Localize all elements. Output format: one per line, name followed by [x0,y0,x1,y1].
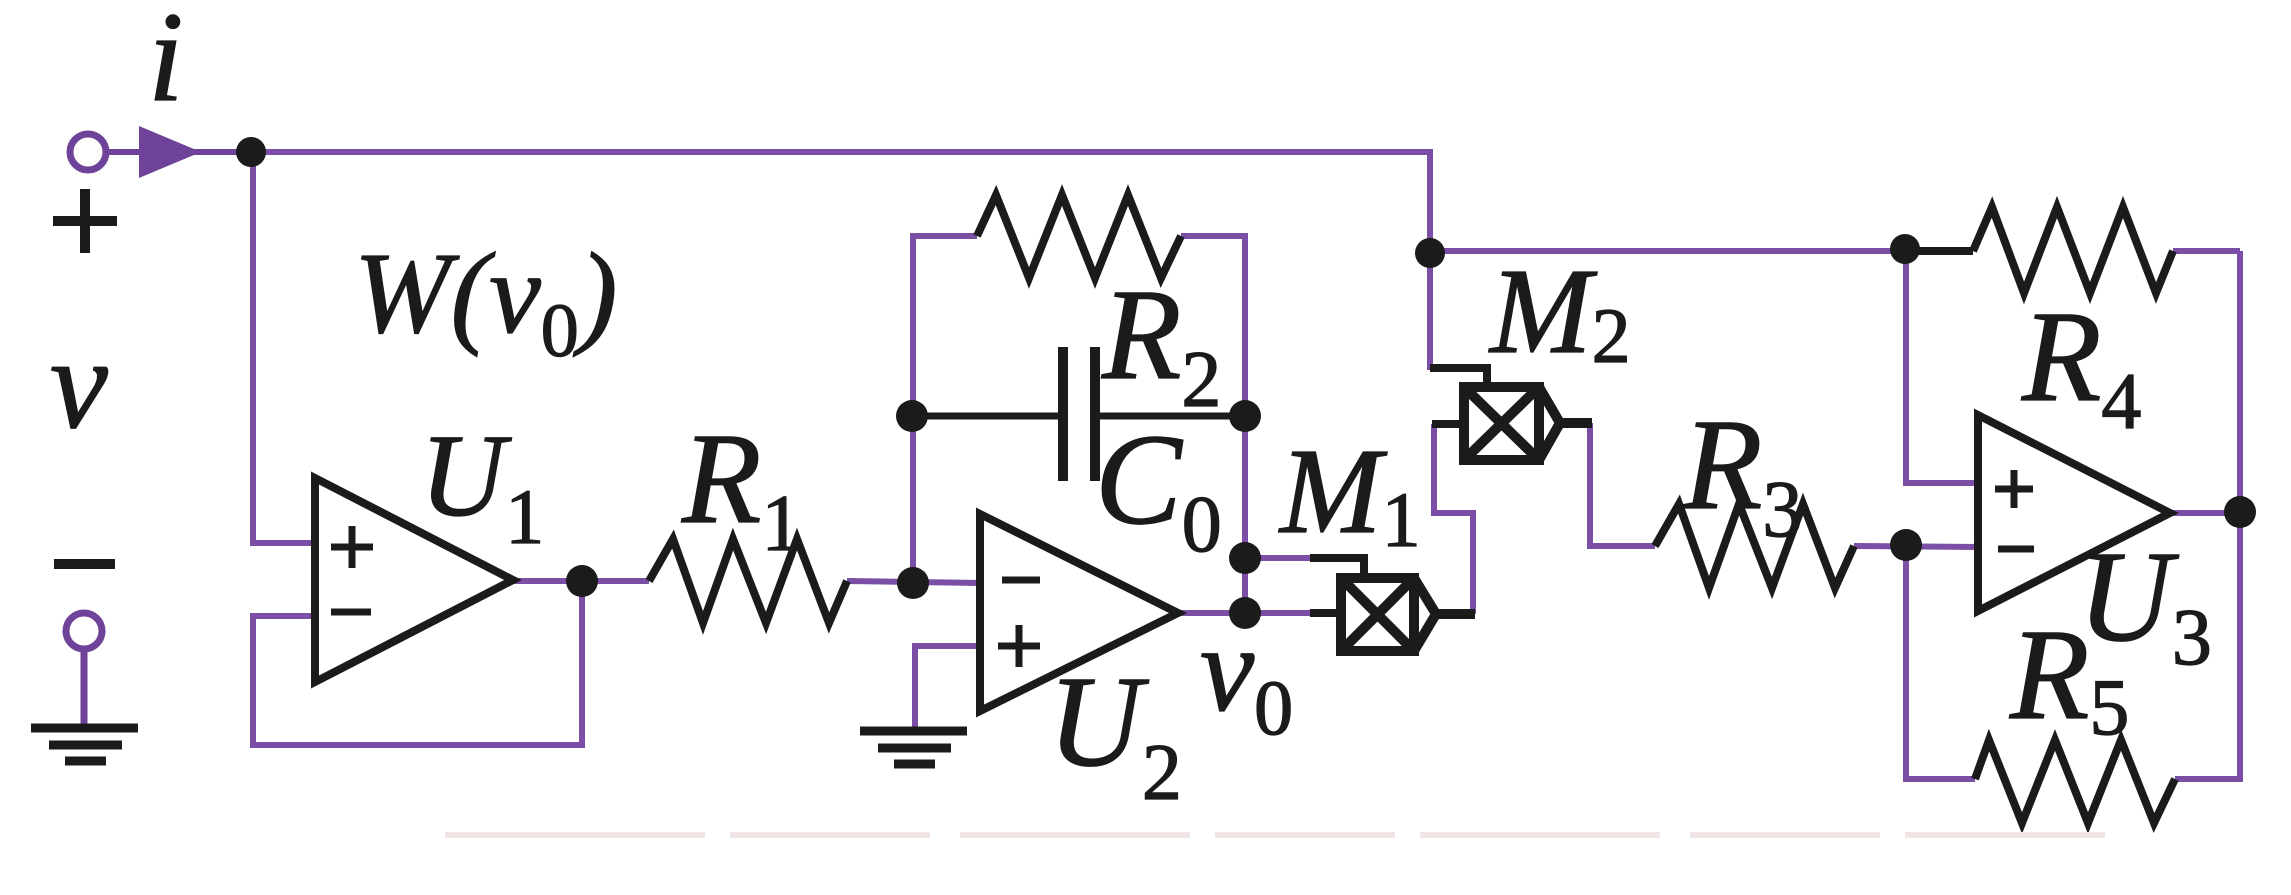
wire: black stub into M1 left input [1310,609,1341,617]
node: M2 branch dot [1415,238,1445,268]
wire: U3 plus node vertical and plus input [1906,251,1978,483]
wire: source terminal stub to input node [88,149,251,155]
wire: second rail from M2 branch node to U3 plus node [1430,248,1906,254]
wire: lower terminal stem to ground [81,645,88,728]
faint cropped caption row at bottom [445,832,2105,838]
wire: U2 output to v0 node [1178,610,1316,616]
wire: input vertical down to U1 plus input [253,152,315,543]
node: input current junction dot [236,137,266,167]
node: C0 left dot [896,400,928,432]
label plus at source [53,189,117,253]
resistor R1 [649,539,847,623]
label minus at source [54,559,115,569]
wire: black step into M2 top input [1430,368,1487,388]
wire: U1 output to R1 [513,578,649,584]
wire: top rail from input node to M2 branch [251,152,1430,253]
ground at U2 plus input [860,731,967,764]
node: U3 plus node dot [1890,234,1920,264]
resistor R4 [1905,207,2173,293]
resistor R2 [977,195,1181,278]
node: C0 right dot [1229,400,1261,432]
svg-text:W(v0): W(v0) [354,230,617,373]
current arrow i [139,126,201,178]
multiplier M1 [1341,578,1475,651]
wire: U3 output to output node [2170,510,2240,516]
node: output dot [2224,496,2256,528]
node: U1 output dot [566,565,598,597]
multiplier M2 [1464,387,1592,460]
node: v0 output dot [1229,597,1261,629]
svg-text:v: v [50,312,108,456]
wire: U3 minus node down to R5 [1906,545,1975,779]
wire: U2 feedback box left vertical + top [913,236,977,583]
wire: U1 feedback loop (minus input to output) [253,581,582,745]
op-amp U2 [980,514,1178,711]
wire: M2 output down to R3 [1590,423,1655,546]
wire: R4 right end to output vertical [2173,248,2240,254]
wire: M2 branch vertical from node down [1427,253,1433,370]
resistor R3 [1655,504,1854,588]
terminal: upper input port circle [70,134,106,170]
svg-text:i: i [148,0,184,128]
node: v0 upper dot [1229,542,1261,574]
wire: black stub into M2 left input [1432,420,1464,428]
op-amp U3 [1978,415,2170,611]
wire: output right vertical [2237,251,2243,779]
wire: M1 output up to M2 left input (purple path) [1434,424,1473,614]
ground at lower input terminal [31,728,138,761]
wire: black step into M1 top input [1310,558,1364,580]
node: U3 minus node dot [1890,529,1922,561]
capacitor C0 [913,347,1245,481]
wire: v0 upper branch to M1 top input [1245,555,1316,561]
wire: R5 right end to output vertical [2175,776,2243,782]
resistor R5 [1975,740,2175,823]
wire: R3 to U3 minus node [1854,546,1978,547]
wire: U2 plus input to ground [915,646,980,729]
op-amp U1 [315,478,513,682]
wire: R1 to U2 minus input [847,581,980,583]
node: R1 / U2 minus junction dot [897,567,929,599]
terminal: lower input port circle [66,613,102,649]
wire: U2 feedback box right side down to v0 node [1181,236,1245,613]
